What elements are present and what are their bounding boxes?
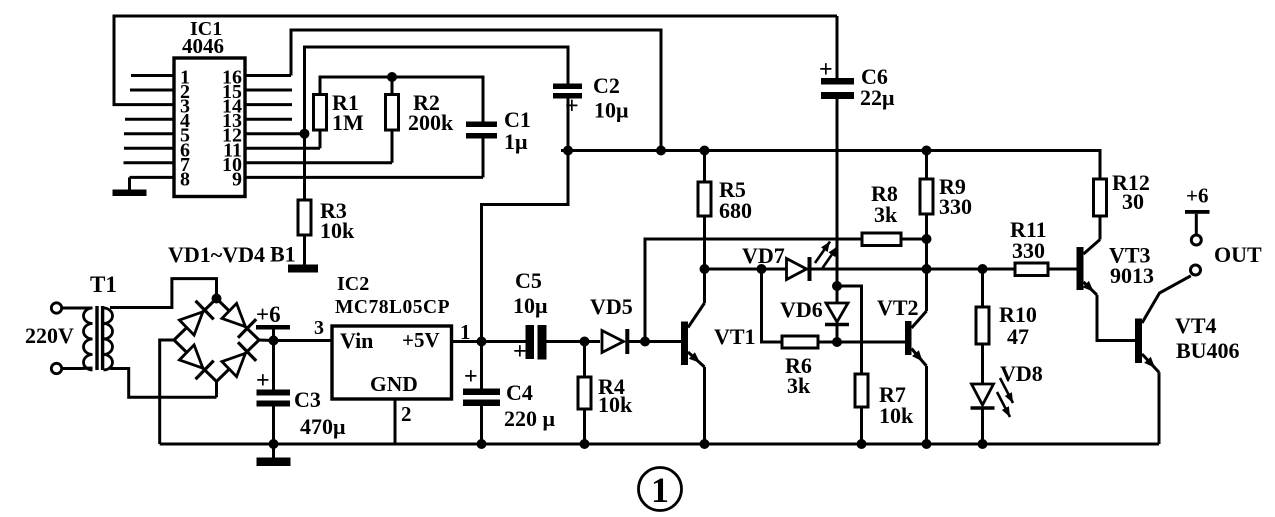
- label R2: [413, 90, 440, 115]
- svg-text:3k: 3k: [874, 202, 898, 227]
- junction VT2 emitter/ground rail: [922, 439, 932, 449]
- T1 secondary winding: [104, 308, 113, 370]
- label C3: [294, 387, 321, 412]
- terminal +6 left: [256, 325, 290, 341]
- junction C3/ground rail: [269, 439, 279, 449]
- label C5: [515, 268, 542, 293]
- diode VD6: [825, 286, 849, 342]
- wire R1 bottom to pin11: [319, 130, 322, 148]
- wire bridge minus to ground rail: [160, 340, 174, 444]
- svg-text:GND: GND: [370, 372, 418, 396]
- T1 primary winding: [84, 308, 93, 370]
- svg-text:+: +: [464, 364, 478, 390]
- label IC1: [190, 18, 222, 40]
- wire +6 to IC2: [274, 339, 333, 342]
- wire feedback riser: [645, 239, 862, 342]
- IC1 pin number 4: [180, 110, 190, 132]
- resistor R2: [386, 77, 399, 130]
- label MC78L05CP: [335, 297, 450, 318]
- wire 5V rail: [561, 151, 1100, 180]
- IC1 pin number 1: [180, 67, 190, 89]
- node IC2 out / C4: [477, 337, 487, 347]
- svg-text:T1: T1: [90, 272, 117, 297]
- IC1 pin 7 lead: [124, 161, 175, 164]
- svg-text:4046: 4046: [182, 34, 224, 58]
- diode VD8: [971, 384, 995, 444]
- VD7 light arrows: [815, 242, 838, 269]
- figure number 1: [639, 468, 682, 511]
- IC1 pin 5 lead: [124, 132, 174, 135]
- node VD6 bottom / R6: [832, 337, 842, 347]
- label 200k: [408, 110, 454, 135]
- label 9013: [1110, 263, 1154, 288]
- resistor R10: [976, 269, 989, 384]
- label R4: [598, 374, 625, 399]
- label VD6: [780, 297, 823, 322]
- label R10: [999, 302, 1037, 327]
- resistor R5: [698, 151, 711, 270]
- svg-text:330: 330: [1012, 238, 1045, 263]
- IC1 pin 15 lead: [245, 89, 292, 92]
- diode VD2 (bridge top-right): [217, 299, 260, 341]
- wire VD5 to VT1 base: [629, 340, 681, 343]
- IC1 pin number 16: [222, 67, 242, 89]
- svg-text:Vin: Vin: [340, 328, 373, 353]
- label +6 right: [1186, 184, 1208, 208]
- label VD7: [742, 243, 785, 268]
- svg-text:OUT: OUT: [1214, 242, 1262, 267]
- IC1 pin number 3: [180, 96, 190, 118]
- resistor R11: [1015, 263, 1077, 276]
- junction wire2/rail: [656, 146, 666, 156]
- label GND: [370, 372, 418, 396]
- svg-text:+6: +6: [1186, 184, 1208, 208]
- label plus C4: [464, 364, 478, 390]
- junction C2/rail: [563, 146, 573, 156]
- resistor R12: [1094, 179, 1107, 240]
- IC1 pin 14 lead: [245, 103, 292, 106]
- label pin 2 IC2: [401, 402, 412, 426]
- svg-text:10μ: 10μ: [513, 293, 548, 318]
- label VD1~VD4: [168, 242, 265, 267]
- wire pin12 riser: [305, 47, 569, 134]
- capacitor C2: [553, 84, 582, 99]
- label R5: [719, 177, 746, 202]
- label plus C6: [819, 57, 833, 83]
- wire bridge plus to +6 node: [259, 339, 274, 343]
- wire 220V bottom lead: [62, 367, 93, 371]
- label plus C2: [565, 94, 579, 120]
- svg-text:10k: 10k: [320, 218, 355, 243]
- label 47: [1007, 324, 1029, 349]
- junction R8/R9: [922, 234, 932, 244]
- label 10k R7: [879, 403, 914, 428]
- label VD5: [590, 294, 633, 319]
- svg-text:470μ: 470μ: [300, 414, 346, 439]
- svg-text:B1: B1: [270, 242, 296, 267]
- node R2 top: [387, 72, 397, 82]
- junction VT1 emitter/ground rail: [700, 439, 710, 449]
- label pin 1 IC2: [460, 320, 471, 344]
- label 680: [719, 198, 752, 223]
- terminal OUT: [1191, 265, 1201, 275]
- label 10k: [320, 218, 355, 243]
- wire ground rail: [160, 443, 1159, 446]
- svg-text:VD8: VD8: [1000, 361, 1043, 386]
- resistor R3: [298, 134, 311, 235]
- label 10k R4: [598, 392, 633, 417]
- label IC2: [337, 273, 369, 295]
- junction VT1 collector/VD7 row: [700, 264, 710, 274]
- wire IC2 out row: [452, 340, 527, 343]
- svg-text:220 μ: 220 μ: [504, 406, 556, 431]
- svg-text:VT2: VT2: [877, 295, 919, 320]
- wire C2 bottom to rail: [567, 99, 570, 151]
- label BU406: [1176, 338, 1240, 363]
- svg-text:VD1~VD4: VD1~VD4: [168, 242, 265, 267]
- label R1: [332, 90, 359, 115]
- svg-text:30: 30: [1122, 189, 1144, 214]
- resistor R7: [855, 374, 868, 444]
- junction R5/rail: [700, 146, 710, 156]
- svg-text:C5: C5: [515, 268, 542, 293]
- label B1: [270, 242, 296, 267]
- wire 220V top lead: [62, 307, 93, 310]
- label T1: [90, 272, 117, 297]
- wire secondary top to bridge: [110, 279, 217, 308]
- label R3: [320, 198, 347, 223]
- wire R1-R2-C1 top: [320, 77, 483, 122]
- IC1 pin number 14: [222, 96, 242, 118]
- IC1 pin 1 lead: [131, 74, 174, 77]
- svg-text:3: 3: [180, 96, 190, 118]
- label 330 R11: [1012, 238, 1045, 263]
- resistor R6: [782, 336, 837, 348]
- label C2: [593, 73, 620, 98]
- label VT4: [1175, 313, 1217, 338]
- label VT2: [877, 295, 919, 320]
- junction R4/ground rail: [580, 439, 590, 449]
- svg-text:1μ: 1μ: [504, 129, 528, 154]
- IC1 pin 8 lead: [130, 176, 175, 179]
- label C1: [504, 107, 531, 132]
- svg-text:10k: 10k: [879, 403, 914, 428]
- svg-text:VD6: VD6: [780, 297, 823, 322]
- label 10u C5: [513, 293, 548, 318]
- label 3k R6: [787, 373, 811, 398]
- svg-text:IC2: IC2: [337, 273, 369, 295]
- svg-text:VT1: VT1: [714, 324, 756, 349]
- svg-text:1: 1: [651, 470, 669, 510]
- wire R6 branch: [762, 269, 783, 342]
- svg-text:10μ: 10μ: [594, 98, 629, 123]
- node +6: [269, 336, 279, 346]
- wire VD6 to VT2 base: [837, 341, 905, 344]
- svg-text:C3: C3: [294, 387, 321, 412]
- resistor R8: [862, 233, 927, 246]
- IC1 pin number 12: [222, 125, 242, 147]
- wire bridge bottom stub: [215, 382, 218, 398]
- label plus C5: [513, 339, 527, 365]
- node bridge top junction: [212, 294, 222, 304]
- IC1 pin 9 lead: [245, 176, 483, 179]
- svg-text:+: +: [819, 57, 833, 83]
- svg-text:C2: C2: [593, 73, 620, 98]
- label VT3: [1109, 243, 1151, 268]
- transistor VT3: [1077, 240, 1136, 341]
- wire VD7 row: [705, 268, 787, 271]
- svg-text:+5V: +5V: [402, 328, 440, 352]
- IC1 pin number 11: [223, 139, 242, 161]
- wire IC2 pin2 to ground: [394, 399, 397, 444]
- IC1 pin 12 lead: [245, 132, 305, 135]
- IC1 pin number 13: [222, 110, 242, 132]
- transistor VT2: [905, 269, 927, 444]
- svg-text:220V: 220V: [25, 323, 74, 348]
- svg-text:VD5: VD5: [590, 294, 633, 319]
- label 10u C2: [594, 98, 629, 123]
- svg-text:2: 2: [401, 402, 412, 426]
- label +5V: [402, 328, 440, 352]
- wire R8 junction down: [925, 239, 928, 269]
- transistor VT4: [1135, 276, 1191, 444]
- label OUT: [1214, 242, 1262, 267]
- IC1 pin 4 lead: [125, 118, 174, 121]
- svg-text:+: +: [256, 368, 270, 394]
- capacitor C6: [821, 78, 854, 99]
- terminal 220V top: [51, 303, 61, 313]
- svg-text:C4: C4: [506, 380, 533, 405]
- svg-text:9: 9: [232, 168, 242, 190]
- IC1 pin number 15: [222, 81, 242, 103]
- svg-text:680: 680: [719, 198, 752, 223]
- label Vin: [340, 328, 373, 353]
- IC1 pin 13 lead: [245, 118, 292, 121]
- wire top rail to C6: [836, 16, 839, 78]
- label R12: [1112, 170, 1150, 195]
- diode VD1 (bridge left-top): [174, 299, 217, 341]
- IC1 pin number 2: [180, 81, 190, 103]
- IC1 pin number 6: [180, 139, 190, 161]
- label 4046: [182, 34, 224, 58]
- node pin12 junction: [300, 129, 310, 139]
- label 470u: [300, 414, 346, 439]
- IC1 pin number 10: [222, 154, 242, 176]
- IC2 MC78L05CP body: [332, 326, 452, 399]
- label plus C3: [256, 368, 270, 394]
- IC1 pin number 7: [180, 154, 190, 176]
- svg-text:VT4: VT4: [1175, 313, 1217, 338]
- svg-text:3k: 3k: [787, 373, 811, 398]
- ground at IC1 pin 8: [113, 177, 147, 196]
- label 330 R9: [939, 194, 972, 219]
- ground symbol below C3: [257, 444, 291, 466]
- svg-text:200k: 200k: [408, 110, 454, 135]
- label VT1: [714, 324, 756, 349]
- svg-text:47: 47: [1007, 324, 1029, 349]
- capacitor C1: [466, 122, 497, 139]
- wire C6 bottom to VD6: [836, 99, 839, 286]
- svg-text:BU406: BU406: [1176, 338, 1240, 363]
- diode VD3 (bridge left-bottom): [174, 340, 217, 382]
- svg-text:+6: +6: [256, 302, 281, 327]
- IC1 pin number 9: [232, 168, 242, 190]
- svg-text:3: 3: [314, 317, 324, 339]
- IC1 4046 body: [174, 58, 245, 197]
- IC1 pin 6 lead: [124, 147, 174, 150]
- IC1 pin 11 lead: [245, 147, 320, 150]
- wire VD6 top to R7: [837, 286, 862, 374]
- resistor R1: [314, 95, 327, 131]
- junction R7/ground rail: [857, 439, 867, 449]
- terminal 220V bottom: [51, 363, 61, 373]
- diode VD4 (bridge bottom-right): [217, 340, 260, 382]
- node R4 top: [580, 337, 590, 347]
- svg-text:10k: 10k: [598, 392, 633, 417]
- capacitor C4: [463, 342, 500, 445]
- T1 core: [95, 306, 104, 370]
- svg-text:330: 330: [939, 194, 972, 219]
- resistor R4: [578, 342, 591, 445]
- svg-text:8: 8: [180, 168, 190, 190]
- IC1 pin 2 lead: [130, 89, 174, 92]
- IC1 pin number 5: [180, 125, 190, 147]
- node R10 top: [978, 264, 988, 274]
- label 30: [1122, 189, 1144, 214]
- touch plate B1: [288, 265, 318, 273]
- junction VD8/ground rail: [978, 439, 988, 449]
- transistor VT1: [681, 269, 705, 444]
- svg-text:+: +: [513, 339, 527, 365]
- label R8: [871, 181, 898, 206]
- junction R9/rail: [922, 146, 932, 156]
- label 220V: [25, 323, 74, 348]
- label VD8: [1000, 361, 1043, 386]
- label C6: [861, 64, 888, 89]
- svg-text:22μ: 22μ: [860, 85, 895, 110]
- svg-text:VD7: VD7: [742, 243, 785, 268]
- label R11: [1010, 217, 1047, 242]
- wire C5 to VD5: [547, 340, 601, 343]
- label R7: [879, 382, 906, 407]
- VD8 light arrows: [997, 378, 1013, 417]
- svg-text:1M: 1M: [332, 110, 364, 135]
- label R9: [939, 174, 966, 199]
- label 1M: [332, 110, 364, 135]
- label C4: [506, 380, 533, 405]
- wire pin16 riser: [291, 30, 661, 151]
- capacitor C5: [526, 325, 547, 360]
- diode VD5: [602, 329, 627, 354]
- label 22u: [860, 85, 895, 110]
- IC1 pin 10 lead: [245, 161, 392, 164]
- diode VD7: [787, 257, 810, 281]
- IC1 pin number 8: [180, 168, 190, 190]
- terminal +6 right: [1185, 210, 1210, 245]
- node VD6 top: [832, 281, 842, 291]
- node R6 branch: [757, 264, 767, 274]
- label +6 left: [256, 302, 281, 327]
- junction VT2 collector/VD7 row: [922, 264, 932, 274]
- label 220u: [504, 406, 556, 431]
- junction C4/ground rail: [477, 439, 487, 449]
- wire secondary bottom to bridge: [110, 369, 217, 398]
- wire C1 bottom to pin9: [482, 139, 485, 178]
- wire pin3 to top rail: [114, 16, 837, 105]
- wire R2 bottom to pin10: [391, 130, 394, 163]
- label 1u: [504, 129, 528, 154]
- svg-text:9013: 9013: [1110, 263, 1154, 288]
- IC1 pin 16 lead: [245, 74, 291, 77]
- resistor R9: [920, 151, 933, 240]
- label R6: [785, 353, 812, 378]
- node VD5/feedback: [640, 337, 650, 347]
- label pin 3 IC2: [314, 317, 324, 339]
- wire VD7 to R11: [807, 268, 1016, 271]
- wire R3 to B1: [303, 235, 306, 265]
- capacitor C3: [257, 341, 291, 445]
- label 3k R8: [874, 202, 898, 227]
- svg-text:MC78L05CP: MC78L05CP: [335, 297, 450, 318]
- wire rail to IC2 out: [482, 151, 569, 342]
